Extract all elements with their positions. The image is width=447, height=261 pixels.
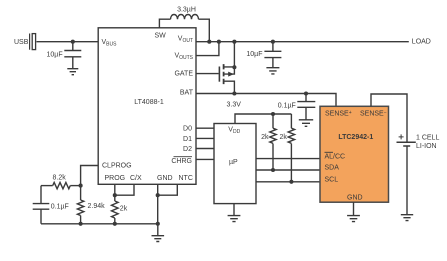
pin AL/CC label with overline [325, 152, 346, 160]
transistor PMOS external FET [219, 42, 234, 94]
node FET drain tap [232, 40, 236, 44]
node output cap tap [271, 40, 275, 44]
inductor 3.3uH [171, 15, 199, 20]
svg-text:3.3µH: 3.3µH [177, 7, 196, 14]
node 2.94k bottom [79, 222, 83, 226]
IC U1 LT4088-1 [98, 28, 196, 185]
svg-text:8.2k: 8.2k [53, 175, 67, 182]
node 2k bottom [113, 222, 117, 226]
svg-text:SENSE−: SENSE− [360, 110, 387, 118]
wire USB to VBUS [37, 41, 99, 43]
svg-text:2k: 2k [279, 134, 287, 141]
ground 0.1uF BAT [299, 120, 313, 127]
pin CHRG label with overline [171, 157, 192, 165]
svg-text:0.1µF: 0.1µF [51, 203, 69, 210]
node CLPROG junction [79, 184, 83, 188]
svg-text:CHRG: CHRG [171, 158, 192, 165]
wire CLPROG [81, 166, 99, 186]
svg-text:1 CELL: 1 CELL [416, 134, 439, 141]
capacitor 0.1uF BAT [297, 94, 315, 120]
svg-text:SENSE+: SENSE+ [325, 110, 352, 118]
resistor 2k PROG [112, 195, 119, 224]
node GND/NTC junction [156, 193, 160, 197]
svg-text:2k: 2k [120, 206, 128, 213]
capacitor 10uF output [264, 42, 281, 68]
resistor 8.2k [41, 182, 81, 188]
svg-text:USB: USB [14, 39, 29, 46]
wire 3.3V rail [235, 114, 291, 124]
resistor 2k pullup SCL [288, 114, 294, 182]
wire SW to inductor [159, 19, 170, 28]
wire VOUT rail to LOAD [196, 41, 409, 43]
node SDA pullup [271, 168, 275, 172]
wire CHRG [196, 158, 214, 160]
wire PROG down [114, 185, 116, 196]
node VBUS/C-in junction [71, 40, 75, 44]
node PROG/CX junction [113, 193, 117, 197]
label 1 CELL LI-ION [416, 134, 439, 150]
svg-text:µP: µP [229, 159, 238, 166]
svg-text:3.3V: 3.3V [227, 101, 242, 108]
svg-text:SDA: SDA [325, 165, 340, 172]
svg-text:GND: GND [157, 175, 173, 182]
IC LTC2942-1 [320, 106, 389, 202]
svg-text:AL/CC: AL/CC [325, 153, 346, 160]
resistor 2k pullup SDA [270, 114, 276, 170]
svg-text:CLPROG: CLPROG [102, 162, 132, 169]
wire BAT rail [196, 94, 336, 107]
wire D2 [196, 148, 214, 150]
wire AL/CC [256, 158, 321, 160]
svg-text:0.1µF: 0.1µF [278, 102, 296, 109]
svg-text:GND: GND [347, 195, 363, 202]
IC uP microprocessor box [214, 124, 256, 204]
node FET drain/body [232, 65, 236, 69]
wire inductor to VOUT node [199, 19, 210, 42]
svg-text:SW: SW [155, 32, 167, 39]
node rail/ground junction [156, 222, 160, 226]
wire D1 [196, 137, 214, 139]
wire C/X to PROG [115, 185, 134, 196]
node VOUTS tap [217, 40, 221, 44]
resistor 2.94k [77, 186, 83, 224]
node inductor/VOUT [207, 40, 211, 44]
svg-text:10µF: 10µF [246, 51, 262, 58]
wire SENSE- to battery [371, 94, 407, 142]
svg-text:LI-ION: LI-ION [416, 143, 437, 150]
svg-text:D0: D0 [183, 126, 192, 133]
ground uP [228, 204, 241, 222]
capacitor 10uF input [64, 42, 81, 69]
svg-text:LT4088-1: LT4088-1 [134, 99, 164, 106]
wire SDA [256, 169, 321, 171]
svg-text:GATE: GATE [174, 70, 193, 77]
node SCL pullup [289, 180, 293, 184]
svg-text:D1: D1 [183, 136, 192, 143]
wire SCL [256, 181, 321, 183]
svg-text:SCL: SCL [325, 177, 339, 184]
svg-text:NTC: NTC [179, 175, 193, 182]
svg-text:2.94k: 2.94k [88, 203, 106, 210]
svg-text:2k: 2k [261, 134, 269, 141]
node FET source on BAT [232, 91, 236, 95]
svg-text:BAT: BAT [180, 90, 194, 97]
ground battery [401, 215, 413, 221]
svg-text:10µF: 10µF [47, 52, 63, 59]
wire bottom rail [41, 223, 158, 225]
svg-text:C/X: C/X [130, 175, 142, 182]
wire VOUTS [196, 42, 219, 56]
svg-text:LTC2942-1: LTC2942-1 [338, 134, 373, 141]
svg-text:LOAD: LOAD [412, 38, 431, 45]
wire D0 [196, 127, 214, 129]
wire GATE [196, 73, 219, 75]
wire GND down [157, 185, 159, 224]
ground output cap [266, 68, 279, 74]
wire NTC to GND [158, 185, 178, 196]
svg-text:D2: D2 [183, 146, 192, 153]
svg-text:PROG: PROG [105, 175, 126, 182]
ground input cap [67, 69, 78, 75]
ground LTC2942 GND [347, 202, 360, 221]
battery 1-cell Li-Ion [397, 134, 416, 214]
ground main [152, 224, 165, 242]
node 0.1uF on BAT [304, 91, 308, 95]
USB connector symbol [29, 34, 36, 50]
node 2k pullup 1 top [271, 112, 275, 116]
capacitor 0.1uF CLPROG [33, 186, 50, 224]
